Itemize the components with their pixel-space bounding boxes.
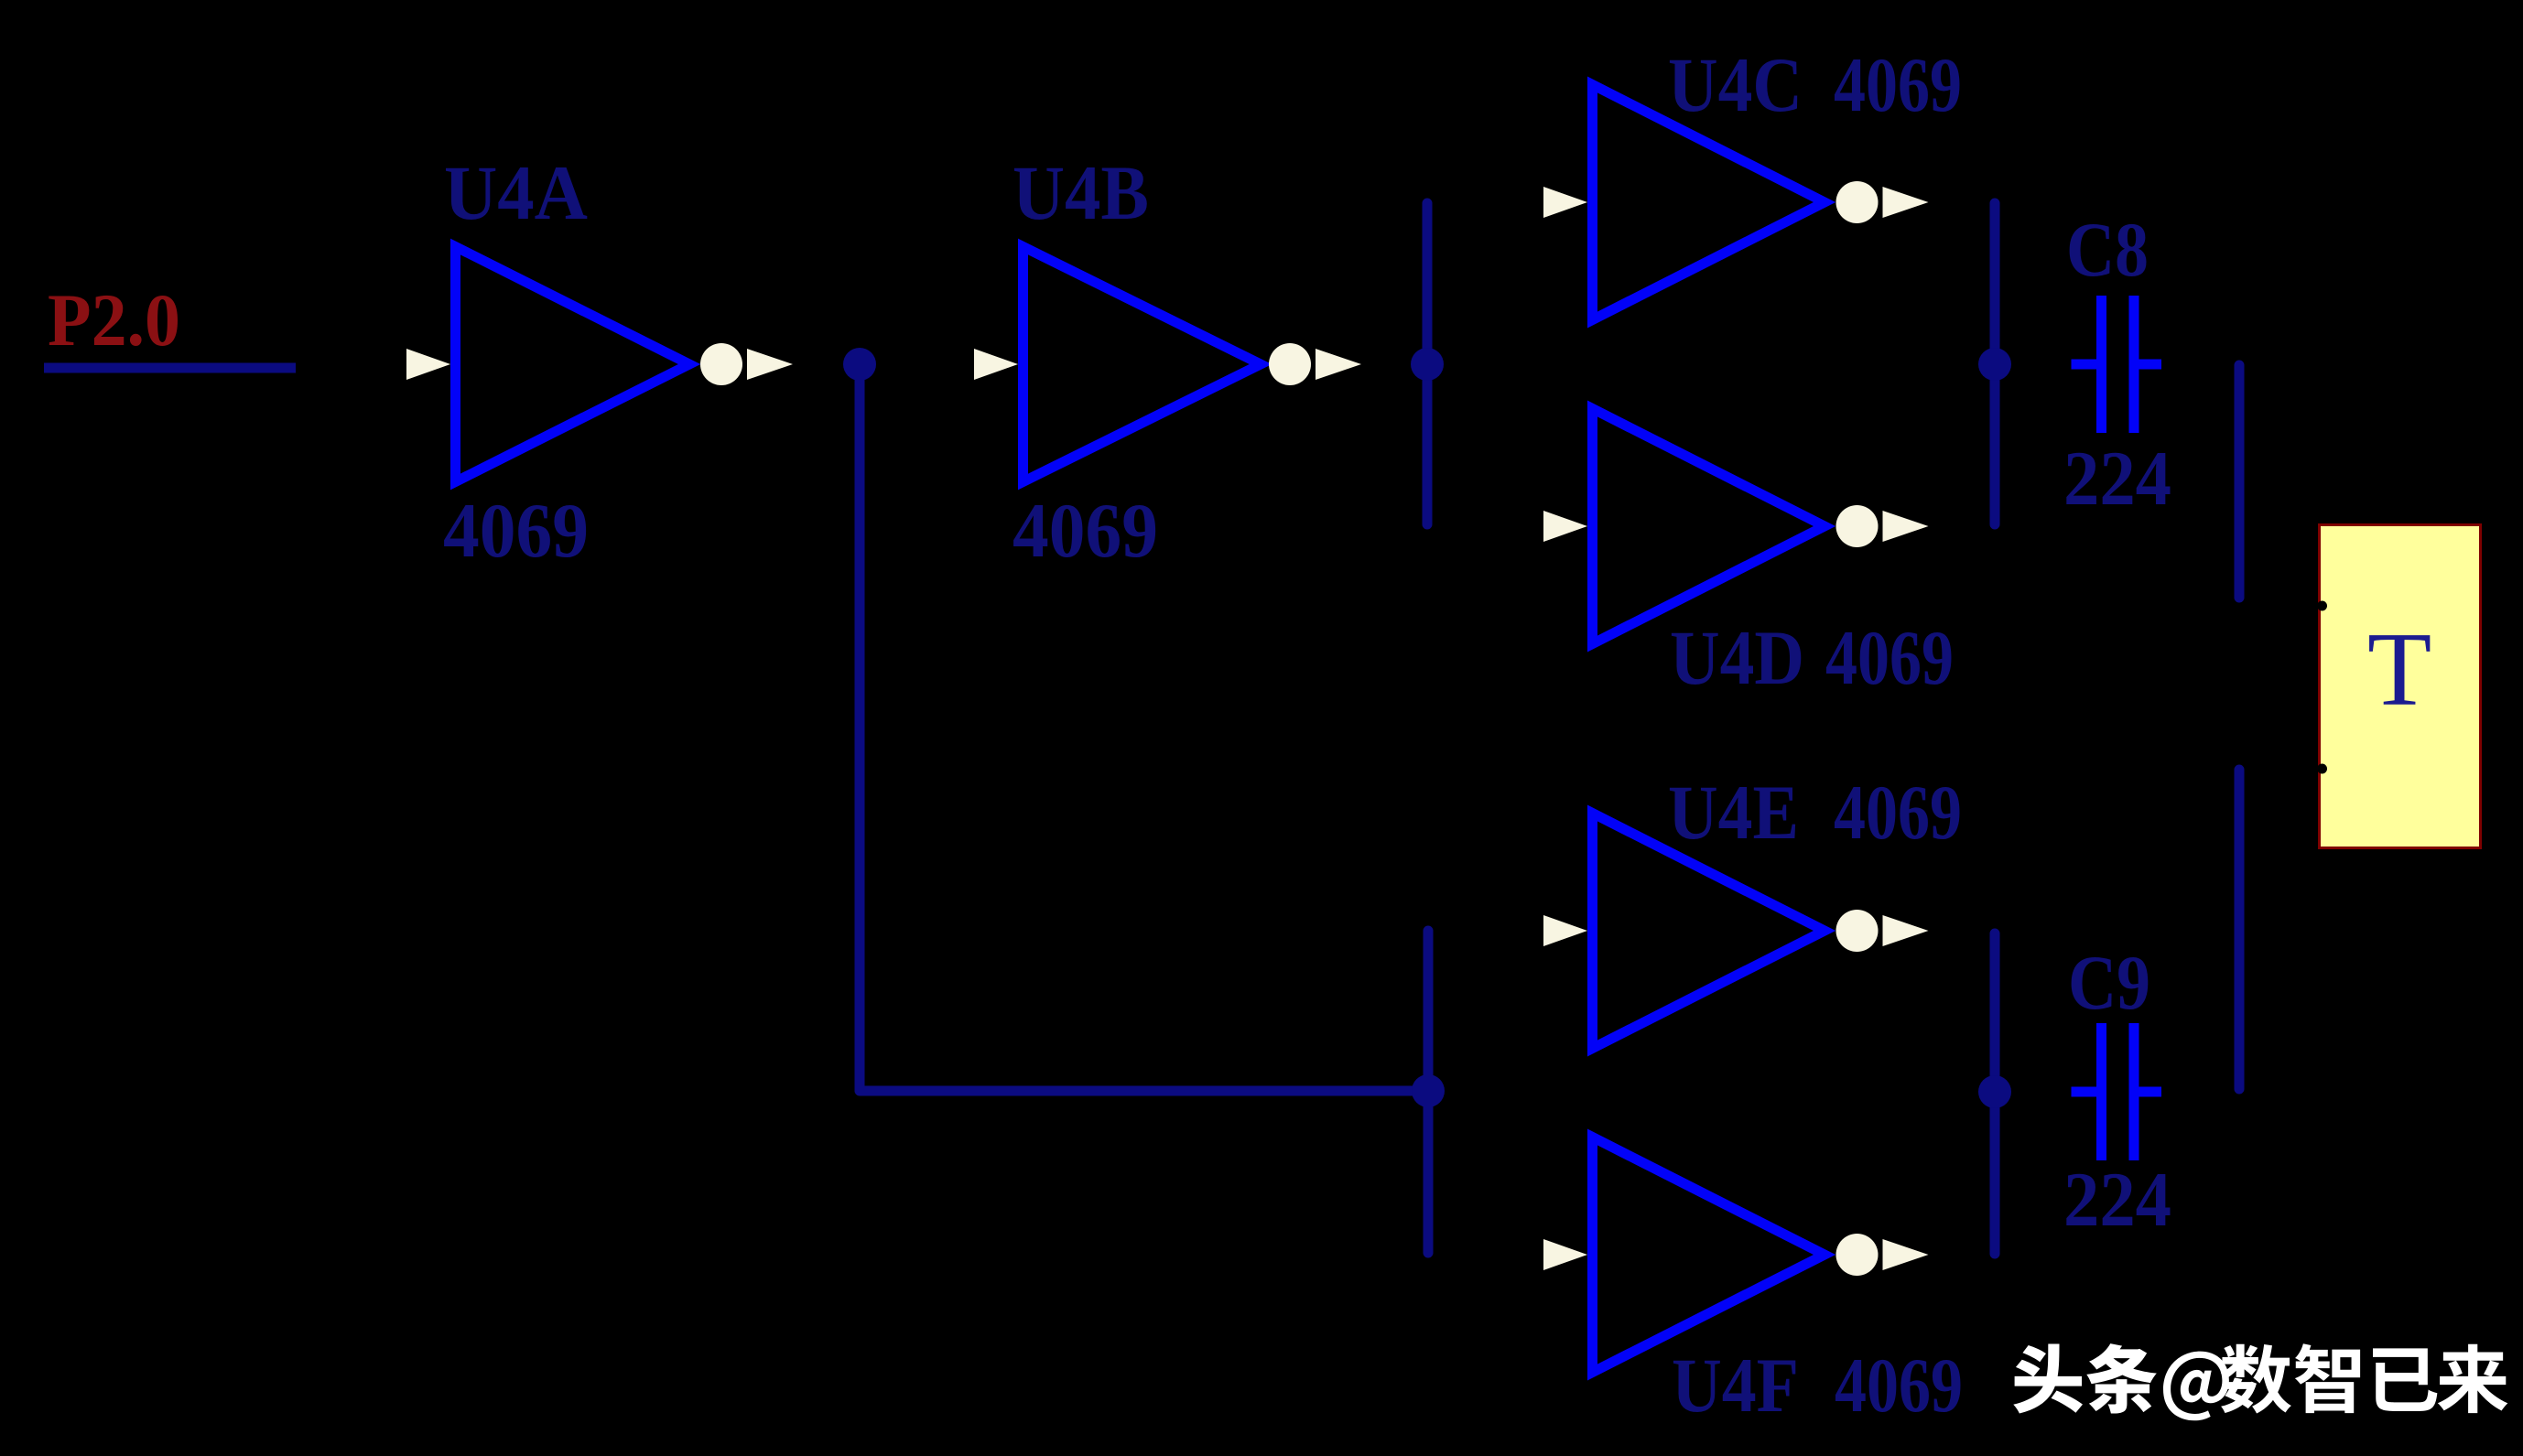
inverter U4C output bubble — [1836, 181, 1879, 223]
inverter U4C triangle — [1593, 85, 1825, 320]
inverter U4B input pin arrow — [974, 349, 1018, 380]
node C8 junction — [1978, 348, 2011, 381]
inverter U4B triangle — [1023, 247, 1261, 482]
inverter U4E input pin arrow — [1543, 915, 1587, 946]
inverter U4E output pin arrow — [1883, 915, 1929, 946]
inverter U4D output pin arrow — [1883, 511, 1929, 542]
svg-text:T: T — [2367, 611, 2431, 728]
svg-text:224: 224 — [2063, 436, 2171, 522]
svg-text:U4A: U4A — [444, 150, 588, 236]
wire U4E U4F input bus — [1424, 931, 1434, 1253]
svg-text:U4B: U4B — [1012, 150, 1149, 236]
inverter U4E triangle — [1593, 814, 1825, 1049]
inverter U4A triangle — [456, 247, 690, 482]
svg-text:4069: 4069 — [1834, 42, 1962, 128]
inverter U4B output bubble — [1269, 343, 1311, 385]
inverter U4D output bubble — [1836, 505, 1879, 547]
wire T bottom pin to C9 node — [2235, 770, 2245, 1089]
wire U4E U4F output bus — [1990, 933, 2000, 1254]
inverter U4B output pin arrow — [1316, 349, 1361, 380]
wire U4C U4D output bus — [1990, 203, 2000, 524]
svg-text:U4F: U4F — [1672, 1343, 1799, 1429]
svg-text:U4D: U4D — [1670, 615, 1804, 701]
inverter U4F output pin arrow — [1883, 1239, 1929, 1270]
inverter U4D input pin arrow — [1543, 511, 1587, 542]
inverter U4A output bubble — [700, 343, 742, 385]
inverter U4C output pin arrow — [1883, 187, 1929, 218]
wire P2.0 input — [44, 363, 296, 373]
node U4B output junction — [1411, 348, 1444, 381]
svg-text:4069: 4069 — [1825, 615, 1954, 701]
inverter U4F input pin arrow — [1543, 1239, 1587, 1270]
node C9 junction — [1978, 1075, 2011, 1108]
transducer T body — [2320, 525, 2481, 848]
node bottom branch junction — [1412, 1074, 1445, 1107]
svg-text:U4C: U4C — [1668, 42, 1803, 128]
inverter U4C input pin arrow — [1543, 187, 1587, 218]
node U4A output junction — [843, 348, 876, 381]
capacitor C8 — [2072, 296, 2162, 433]
wire C8 node to T top pin — [2235, 365, 2245, 598]
svg-text:4069: 4069 — [443, 488, 589, 574]
inverter U4E output bubble — [1836, 910, 1879, 952]
svg-text:4069: 4069 — [1834, 770, 1962, 856]
svg-text:P2.0: P2.0 — [48, 278, 180, 361]
svg-text:C9: C9 — [2068, 940, 2150, 1026]
svg-text:U4E: U4E — [1668, 770, 1799, 856]
wire U4A output down to bottom branch — [860, 364, 1428, 1091]
svg-text:4069: 4069 — [1012, 488, 1158, 574]
svg-text:C8: C8 — [2066, 207, 2149, 293]
inverter U4A input pin arrow — [406, 349, 450, 380]
svg-text:224: 224 — [2063, 1157, 2171, 1243]
svg-text:4069: 4069 — [1835, 1343, 1963, 1429]
transducer T pin 1 dot — [2317, 601, 2327, 611]
wire U4C U4D input bus — [1423, 203, 1433, 524]
inverter U4D triangle — [1593, 409, 1825, 644]
transducer T pin 2 dot — [2317, 764, 2327, 774]
capacitor C9 — [2072, 1023, 2162, 1160]
inverter U4F output bubble — [1836, 1234, 1879, 1276]
watermark 头条 @数智已来 — [2013, 1343, 2507, 1420]
inverter U4F triangle — [1593, 1138, 1825, 1373]
inverter U4A output pin arrow — [747, 349, 793, 380]
